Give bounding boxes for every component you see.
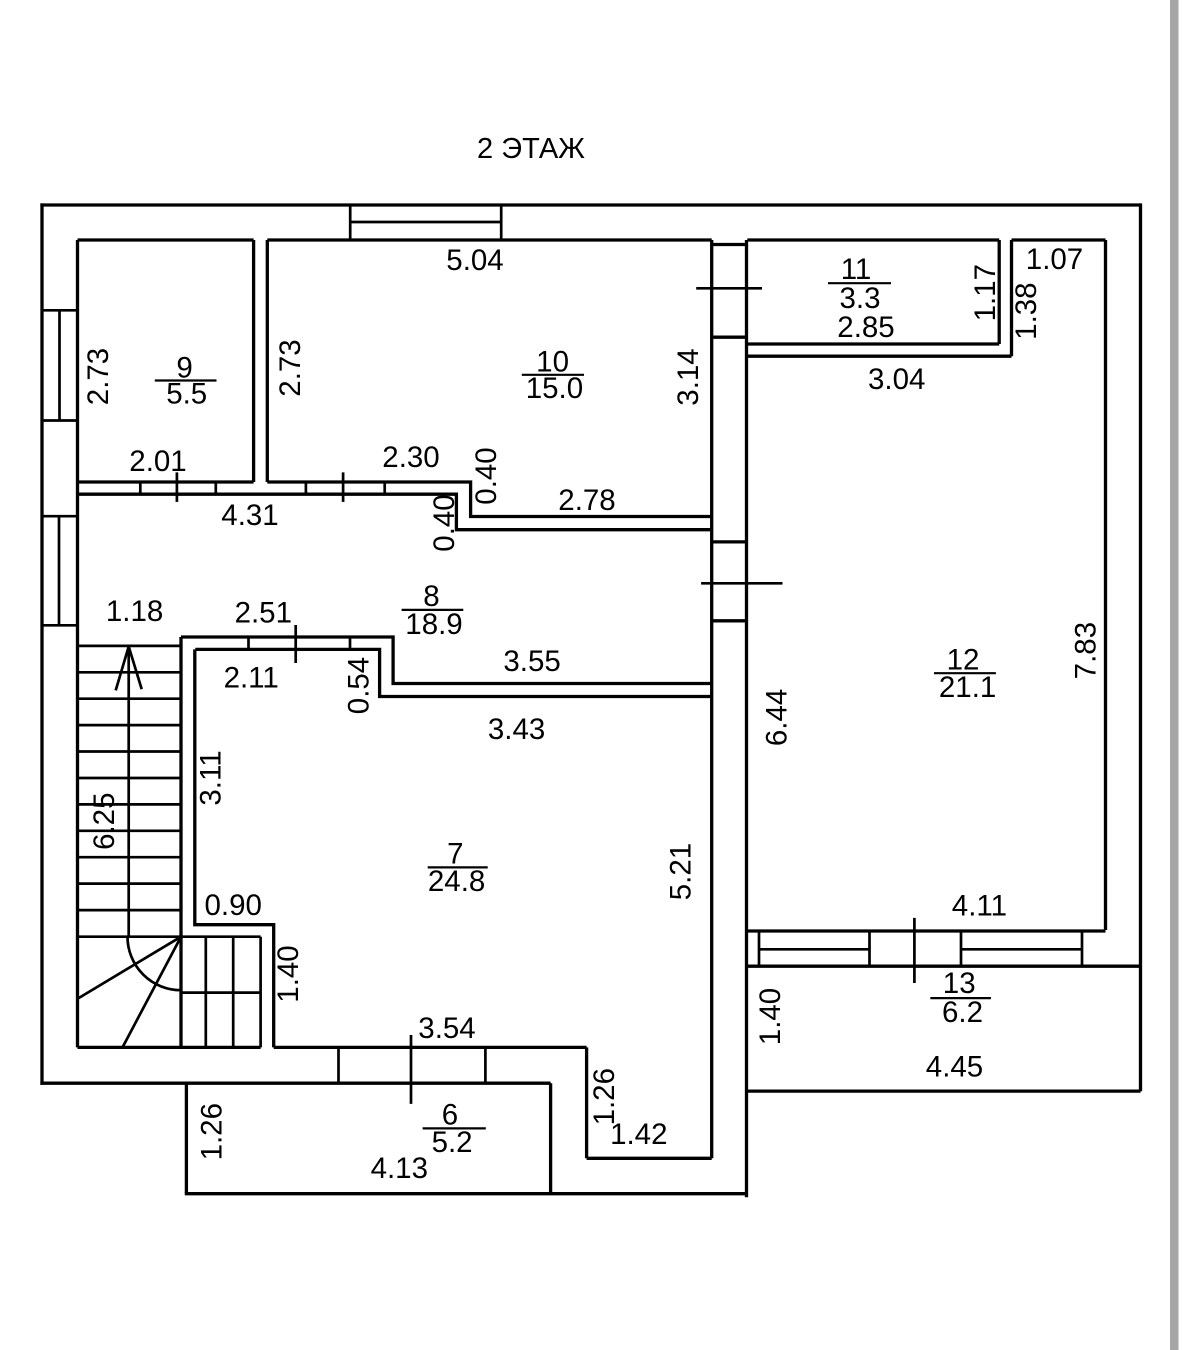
svg-text:3.54: 3.54 [418,1012,475,1045]
stair winder arc [128,937,182,991]
door lintel room10/11 band [712,243,747,246]
wall room12 left / room13 left (long vertical) [745,240,748,1197]
room 13 top wall [747,965,1141,968]
wall between rooms 9 and 10 (right line) [266,240,269,482]
room 7 notch bottom wall [587,1157,712,1160]
stair treads [78,645,182,648]
bottom door box left edge [337,1047,340,1083]
svg-text:6.25: 6.25 [88,792,121,849]
stair winder vertical 2 [232,937,235,1048]
room 7 fraction line [428,866,488,868]
room 10 bottom wall with step [267,482,711,517]
svg-text:1.40: 1.40 [272,945,305,1002]
left window B top tick [42,515,78,518]
room 13 fraction line [930,997,991,999]
room 7 notch left wall [585,1047,588,1158]
top window box right edge [500,205,503,240]
svg-text:2.30: 2.30 [382,441,439,474]
svg-text:2 ЭТАЖ: 2 ЭТАЖ [477,133,585,165]
stair winder vertical 1 [204,937,207,1048]
svg-text:2.01: 2.01 [129,445,186,478]
svg-text:5.04: 5.04 [446,244,503,277]
left window B midline [58,516,61,625]
bottom door box right edge [484,1047,487,1083]
stair winder mid line [181,991,261,994]
svg-text:15.0: 15.0 [526,372,583,405]
svg-text:2.73: 2.73 [274,339,307,396]
svg-text:2.73: 2.73 [82,348,115,405]
tick room11 door [696,287,762,290]
svg-text:6.2: 6.2 [942,996,983,1029]
svg-text:0.54: 0.54 [342,657,375,714]
outer wall bottom-left [40,1082,550,1085]
room 6 left wall [185,1083,188,1194]
room 9 fraction line [155,379,217,381]
bottom window A right edge [868,931,871,966]
left window A top tick [42,309,78,312]
band cross wall upper (corridor) [712,540,747,543]
svg-text:3.55: 3.55 [503,645,560,678]
svg-text:4.45: 4.45 [926,1050,983,1083]
left window A midline [58,310,61,420]
svg-text:0.40: 0.40 [428,494,461,551]
svg-text:1.26: 1.26 [196,1103,229,1160]
stair center line [127,646,130,937]
band cross wall lower (corridor) [712,619,747,622]
svg-text:24.8: 24.8 [428,865,485,898]
svg-text:2.11: 2.11 [224,662,279,695]
room 12 right wall [1104,240,1107,930]
room 6 bottom wall [185,1192,747,1195]
room 12 top wall (3.04) [747,355,1011,358]
scrollbar [1170,0,1179,1350]
left window B bottom tick [42,624,78,627]
inner top wall: room 11 top [747,238,999,241]
left window A bottom tick [42,419,78,422]
tick band short 2 [214,482,217,494]
stair arrow head right [129,647,142,690]
svg-text:3.43: 3.43 [488,713,545,746]
tick band AB short 2 [349,637,352,649]
door sill room10/11 band [712,336,747,339]
svg-text:3.11: 3.11 [195,750,228,805]
room 12 fraction line [934,672,996,674]
svg-text:1.40: 1.40 [754,988,787,1045]
bottom window B left edge [960,931,963,966]
tick 2.51 long [294,625,297,663]
room 6 right wall [549,1083,552,1194]
room 9 bottom wall [78,480,254,483]
stair arrow head left [116,647,129,691]
stair winder diagonal 2 [123,937,182,1048]
svg-text:2.78: 2.78 [558,484,615,517]
left inner wall [76,240,79,1047]
room 8 top wall with step [78,494,712,530]
outer wall left [40,203,43,1084]
niche wall 1.38 [1010,240,1013,356]
svg-text:0.90: 0.90 [204,889,261,922]
svg-text:5.5: 5.5 [166,378,207,411]
tick band short 3 [305,482,308,494]
tick 2.30 long [342,472,345,502]
room 11 fraction line [828,282,891,284]
svg-text:7.83: 7.83 [1069,622,1102,679]
stair winder top line [78,935,261,938]
inner top wall: room 9 top [78,238,254,241]
svg-text:1.18: 1.18 [106,595,163,628]
room 8 bottom wall B (inner) [195,649,711,696]
tick 2.01 long [176,472,179,502]
stair winder diagonal 1 [79,937,181,998]
tick band short 1 [139,482,142,494]
room 7 / room 10 right wall (long vertical V1) [710,240,713,1158]
svg-text:1.17: 1.17 [969,264,1002,321]
svg-text:6.44: 6.44 [761,689,794,746]
top window midline [350,221,501,224]
outer wall right [1139,203,1142,1091]
svg-text:2.51: 2.51 [235,596,292,629]
room 13 bottom wall [746,1089,1141,1092]
rooms bottom wall (stair part) [78,1046,261,1049]
svg-text:21.1: 21.1 [939,671,996,704]
svg-text:3.04: 3.04 [868,363,925,396]
svg-text:13: 13 [943,967,976,1000]
svg-text:1.07: 1.07 [1026,243,1083,276]
tick 3.54 [410,1035,413,1104]
room 12 bottom wall [747,929,1106,932]
rooms bottom wall (room 7 part) [274,1046,587,1049]
svg-text:5.2: 5.2 [432,1126,473,1159]
svg-text:2.85: 2.85 [837,311,894,344]
room 11 bottom wall [747,342,999,345]
stair winder vertical 3 [259,937,262,1048]
room 8 fraction line [402,609,464,611]
svg-text:18.9: 18.9 [405,608,462,641]
stair right wall [179,637,182,1047]
room 7 left wall with 0.90 step [195,649,274,1047]
svg-text:1.38: 1.38 [1010,282,1043,339]
room 11 right wall [998,240,1001,344]
tick 4.11 [913,918,916,983]
tick band AB short 1 [247,637,250,649]
bottom window B right edge [1081,931,1084,966]
bottom window B midline [961,948,1082,951]
wall between rooms 9 and 10 (left line) [252,240,255,482]
outer wall top [40,203,1140,206]
tick 6.44 [701,582,782,585]
svg-text:4.31: 4.31 [221,499,278,532]
tick band short 4 [383,482,386,494]
top window box left edge [349,205,352,240]
room 8 bottom wall A (outer) [181,637,712,684]
svg-text:5.21: 5.21 [664,843,697,900]
bottom window A midline [759,948,870,951]
svg-text:4.13: 4.13 [371,1152,428,1185]
inner top wall: niche top [1012,238,1106,241]
room 6 fraction line [423,1127,486,1129]
svg-text:3.14: 3.14 [672,348,705,405]
svg-text:1.26: 1.26 [588,1068,621,1125]
svg-text:0.40: 0.40 [470,447,503,504]
bottom window A left edge [758,931,761,966]
inner top wall: room 10 top [267,238,711,241]
svg-text:4.11: 4.11 [952,890,1007,923]
room 10 fraction line [522,374,584,376]
